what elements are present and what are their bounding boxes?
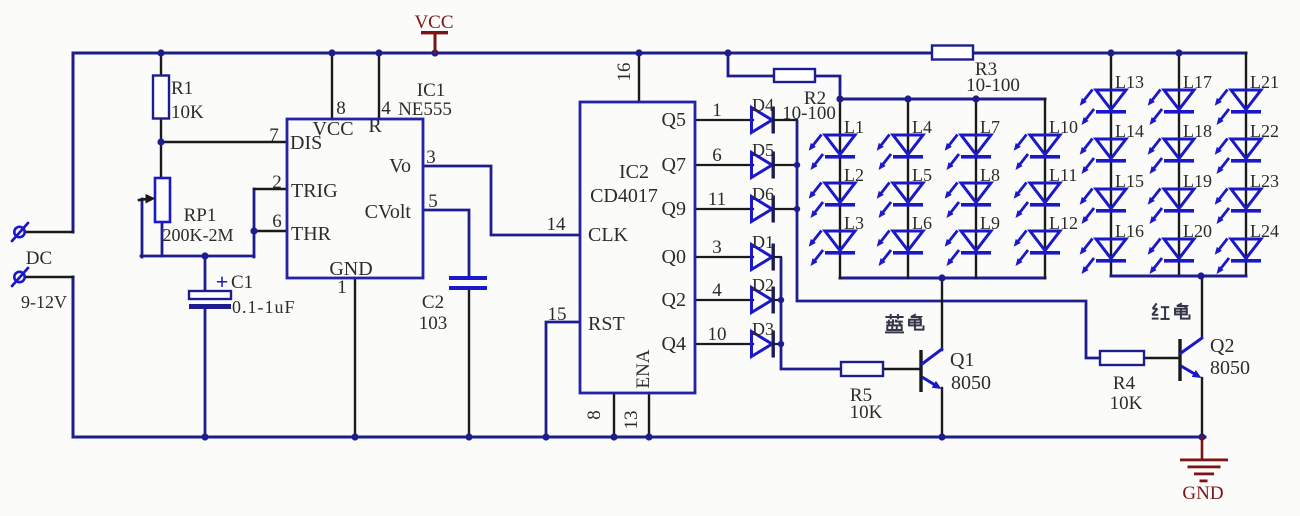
svg-text:Q0: Q0 bbox=[662, 246, 686, 268]
svg-text:D6: D6 bbox=[752, 184, 774, 204]
svg-text:0.1-1uF: 0.1-1uF bbox=[232, 297, 296, 317]
svg-text:8050: 8050 bbox=[1210, 357, 1250, 379]
svg-text:L12: L12 bbox=[1049, 213, 1078, 233]
svg-text:3: 3 bbox=[712, 237, 722, 258]
svg-text:L11: L11 bbox=[1049, 165, 1077, 185]
svg-text:L14: L14 bbox=[1115, 121, 1144, 141]
svg-text:R1: R1 bbox=[171, 78, 193, 99]
svg-text:IC2: IC2 bbox=[619, 161, 649, 183]
svg-text:10-100: 10-100 bbox=[782, 103, 836, 124]
svg-text:L24: L24 bbox=[1250, 221, 1279, 241]
svg-text:6: 6 bbox=[712, 145, 722, 166]
svg-text:GND: GND bbox=[329, 258, 372, 280]
svg-text:RP1: RP1 bbox=[184, 205, 217, 226]
svg-text:L23: L23 bbox=[1250, 171, 1279, 191]
svg-text:3: 3 bbox=[426, 147, 436, 168]
svg-text:8: 8 bbox=[584, 410, 605, 420]
svg-text:GND: GND bbox=[1182, 483, 1223, 504]
svg-text:10K: 10K bbox=[850, 402, 883, 423]
svg-text:7: 7 bbox=[269, 125, 279, 146]
svg-text:10-100: 10-100 bbox=[966, 75, 1020, 96]
svg-text:16: 16 bbox=[614, 63, 635, 82]
svg-text:103: 103 bbox=[419, 313, 448, 334]
svg-text:13: 13 bbox=[621, 411, 642, 430]
svg-text:10K: 10K bbox=[171, 102, 204, 123]
svg-text:L13: L13 bbox=[1115, 72, 1144, 92]
svg-text:D1: D1 bbox=[752, 232, 774, 252]
svg-text:R: R bbox=[368, 115, 382, 137]
svg-text:ENA: ENA bbox=[633, 349, 654, 388]
svg-text:D4: D4 bbox=[752, 95, 774, 115]
svg-text:2: 2 bbox=[272, 172, 282, 193]
svg-text:DC: DC bbox=[26, 248, 52, 269]
svg-text:Vo: Vo bbox=[389, 155, 411, 177]
svg-text:10: 10 bbox=[708, 324, 727, 345]
svg-text:VCC: VCC bbox=[414, 12, 453, 33]
svg-text:L19: L19 bbox=[1183, 171, 1212, 191]
svg-text:RST: RST bbox=[588, 313, 625, 335]
svg-text:1: 1 bbox=[712, 100, 722, 121]
svg-text:L10: L10 bbox=[1049, 117, 1078, 137]
svg-text:Q2: Q2 bbox=[1210, 335, 1234, 357]
svg-text:CVolt: CVolt bbox=[365, 201, 412, 223]
svg-text:4: 4 bbox=[381, 98, 391, 119]
svg-text:14: 14 bbox=[547, 214, 567, 235]
svg-text:L2: L2 bbox=[844, 165, 864, 185]
svg-text:TRIG: TRIG bbox=[291, 180, 338, 202]
svg-text:L17: L17 bbox=[1183, 72, 1212, 92]
svg-text:10K: 10K bbox=[1110, 393, 1143, 414]
svg-text:L9: L9 bbox=[980, 213, 1000, 233]
svg-text:NE555: NE555 bbox=[398, 99, 452, 120]
svg-text:L18: L18 bbox=[1183, 121, 1212, 141]
svg-text:15: 15 bbox=[548, 304, 567, 325]
svg-text:Q5: Q5 bbox=[662, 109, 686, 131]
svg-text:L6: L6 bbox=[912, 213, 932, 233]
svg-text:L21: L21 bbox=[1250, 72, 1279, 92]
svg-text:4: 4 bbox=[712, 280, 722, 301]
svg-text:8050: 8050 bbox=[951, 372, 991, 394]
svg-text:D5: D5 bbox=[752, 140, 774, 160]
svg-text:L3: L3 bbox=[844, 213, 864, 233]
svg-text:L5: L5 bbox=[912, 165, 932, 185]
svg-text:11: 11 bbox=[708, 189, 726, 210]
svg-text:Q2: Q2 bbox=[662, 289, 686, 311]
svg-text:L1: L1 bbox=[844, 117, 864, 137]
svg-text:6: 6 bbox=[272, 211, 282, 232]
svg-text:D3: D3 bbox=[752, 319, 774, 339]
svg-text:1: 1 bbox=[337, 277, 347, 298]
svg-text:L7: L7 bbox=[980, 117, 1000, 137]
svg-text:+: + bbox=[216, 269, 229, 294]
svg-text:IC1: IC1 bbox=[417, 80, 446, 101]
svg-text:8: 8 bbox=[336, 98, 346, 119]
svg-text:L16: L16 bbox=[1115, 221, 1144, 241]
svg-text:Q9: Q9 bbox=[662, 198, 686, 220]
svg-text:C1: C1 bbox=[231, 272, 253, 293]
svg-text:Q7: Q7 bbox=[662, 154, 686, 176]
svg-text:L20: L20 bbox=[1183, 221, 1212, 241]
svg-text:L15: L15 bbox=[1115, 171, 1144, 191]
svg-text:Q4: Q4 bbox=[662, 333, 686, 355]
svg-text:L22: L22 bbox=[1250, 121, 1279, 141]
svg-text:200K-2M: 200K-2M bbox=[163, 225, 234, 245]
svg-text:C2: C2 bbox=[422, 292, 444, 313]
svg-text:L8: L8 bbox=[980, 165, 1000, 185]
svg-text:5: 5 bbox=[428, 191, 438, 212]
svg-text:9-12V: 9-12V bbox=[21, 292, 67, 312]
svg-text:L4: L4 bbox=[912, 117, 932, 137]
svg-text:Q1: Q1 bbox=[950, 349, 974, 371]
svg-text:D2: D2 bbox=[752, 275, 774, 295]
svg-text:THR: THR bbox=[291, 223, 332, 245]
svg-text:CD4017: CD4017 bbox=[590, 185, 658, 207]
svg-text:R4: R4 bbox=[1113, 373, 1136, 394]
svg-text:DIS: DIS bbox=[290, 132, 322, 154]
svg-text:CLK: CLK bbox=[588, 224, 629, 246]
